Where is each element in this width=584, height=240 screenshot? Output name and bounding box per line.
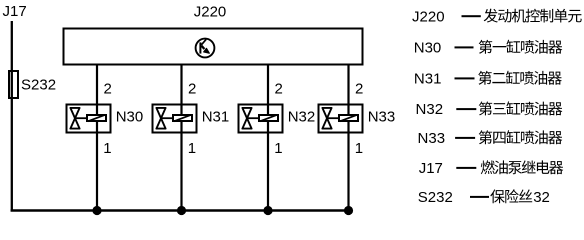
legend row: N33 = 第四缸喷油器 <box>418 130 563 147</box>
junction dot at N32 pin1 / bus <box>263 206 272 215</box>
svg-text:1: 1 <box>274 140 282 157</box>
legend row: N30 = 第一缸喷油器 <box>414 40 563 57</box>
injector N30 link valve to coil <box>75 117 87 119</box>
svg-text:32: 32 <box>533 189 550 206</box>
svg-text:2: 2 <box>104 81 112 98</box>
svg-text:N31: N31 <box>202 108 230 125</box>
injector N31 link valve to coil <box>161 117 173 119</box>
svg-text:1: 1 <box>355 140 363 157</box>
injector N33 valve (bowtie) <box>322 108 331 129</box>
svg-text:N31: N31 <box>414 71 442 88</box>
ground/supply bus wire (bottom) <box>11 209 351 212</box>
pin label 1 (N33) <box>355 140 363 157</box>
svg-text:2: 2 <box>355 81 363 98</box>
injector N31 box <box>153 105 197 133</box>
injector N32 solenoid coil <box>259 115 278 122</box>
injector N32 valve (bowtie) <box>242 108 251 129</box>
pin label 2 (N30) <box>104 81 112 98</box>
svg-text:1: 1 <box>103 140 111 157</box>
injector N30 box <box>67 105 111 133</box>
injector N32 link valve to coil <box>247 117 259 119</box>
wire pin2 from J220 to injector N32 and pin1 down to bus <box>267 65 269 211</box>
svg-text:N33: N33 <box>418 130 446 147</box>
pin label 1 (N32) <box>274 140 282 157</box>
ECU internal icon (circle with cursor) <box>196 39 215 58</box>
svg-text:J17: J17 <box>3 3 27 20</box>
injector N32 box <box>239 105 283 133</box>
svg-text:N32: N32 <box>416 101 444 118</box>
pin label 1 (N30) <box>103 140 111 157</box>
label N31 <box>202 108 230 125</box>
label N32 <box>288 108 316 125</box>
svg-text:S232: S232 <box>418 189 453 206</box>
injector N33 link valve to coil <box>327 117 339 119</box>
node J17 label <box>3 3 27 20</box>
svg-text:1: 1 <box>188 140 196 157</box>
svg-text:J17: J17 <box>419 160 443 177</box>
label N30 <box>116 108 144 125</box>
svg-text:J220: J220 <box>194 4 227 21</box>
svg-text:N33: N33 <box>368 108 396 125</box>
label J220 <box>194 4 227 21</box>
svg-text:N32: N32 <box>288 108 316 125</box>
pin label 2 (N33) <box>355 81 363 98</box>
legend row: N32 = 第三缸喷油器 <box>416 101 563 118</box>
wire pin2 from J220 to injector N33 and pin1 down to bus <box>347 65 349 211</box>
wire pin2 from J220 to injector N31 and pin1 down to bus <box>180 65 182 211</box>
svg-text:2: 2 <box>275 81 283 98</box>
svg-text:S232: S232 <box>21 77 56 94</box>
legend row: J220 = 发动机控制单元 <box>412 8 582 25</box>
svg-text:2: 2 <box>188 81 196 98</box>
injector N30 valve (bowtie) <box>70 108 79 129</box>
wire from J17 through fuse to bottom bus <box>11 21 13 212</box>
wire pin2 from J220 to injector N30 and pin1 down to bus <box>96 65 98 211</box>
ECU box J220 <box>64 29 363 65</box>
pin label 2 (N32) <box>275 81 283 98</box>
junction dot at N33 pin1 / bus <box>344 206 353 215</box>
pin label 2 (N31) <box>188 81 196 98</box>
injector N30 solenoid coil <box>87 115 106 122</box>
legend row: N31 = 第二缸喷油器 <box>414 71 562 88</box>
injector N31 valve (bowtie) <box>156 108 165 129</box>
svg-text:N30: N30 <box>116 108 144 125</box>
fuse S232 <box>9 71 18 98</box>
junction dot at N31 pin1 / bus <box>177 206 186 215</box>
svg-text:N30: N30 <box>414 40 442 57</box>
injector N31 solenoid coil <box>173 115 192 122</box>
label N33 <box>368 108 396 125</box>
label S232 <box>21 77 56 94</box>
svg-text:J220: J220 <box>412 8 445 25</box>
legend row: S232 = 保险丝 <box>418 189 550 206</box>
injector N33 solenoid coil <box>339 115 358 122</box>
legend row: J17 = 燃油泵继电器 <box>419 160 564 177</box>
junction dot at N30 pin1 / bus <box>92 206 101 215</box>
injector N33 box <box>319 105 363 133</box>
pin label 1 (N31) <box>188 140 196 157</box>
